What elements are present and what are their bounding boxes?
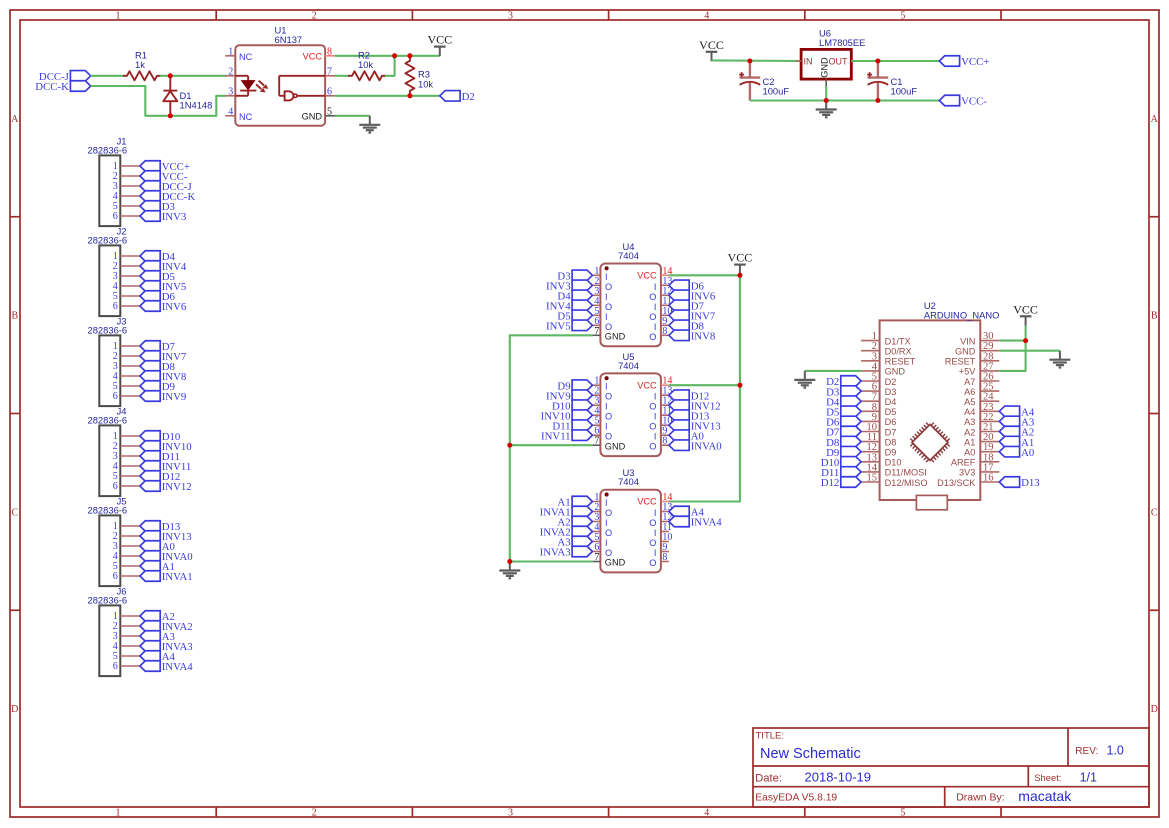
svg-text:6: 6: [113, 571, 118, 582]
U3 pin 2: [592, 502, 612, 518]
wire VCC rail to U2 pin 27 +5V: [999, 341, 1025, 371]
svg-text:INVA3: INVA3: [540, 547, 571, 559]
svg-text:I: I: [654, 548, 657, 558]
svg-text:282836-6: 282836-6: [88, 144, 128, 155]
U2 USB connector rectangle: [916, 495, 947, 509]
U1 pin 7: [325, 66, 335, 77]
svg-text:A3: A3: [964, 417, 975, 427]
svg-text:2: 2: [312, 808, 317, 819]
U6 pin IN: [796, 57, 813, 67]
net flag INV3 (J1 pin 6): [140, 211, 186, 223]
net flag A4 (J6 pin 5): [140, 651, 176, 663]
net flag INV13 (J5 pin 2): [140, 531, 192, 543]
svg-text:D2: D2: [462, 91, 475, 103]
svg-text:8: 8: [662, 326, 667, 337]
U3 pin 4: [592, 522, 612, 538]
net flag INV9 (U5 pin 2): [546, 390, 592, 402]
junction C1 bottom node: [875, 98, 880, 103]
svg-text:A2: A2: [964, 427, 975, 437]
svg-text:7404: 7404: [618, 476, 639, 487]
J6 pin 3: [113, 631, 140, 642]
U2 chip diamond glyph: [910, 423, 949, 462]
svg-text:8: 8: [327, 46, 332, 57]
U6 pin GND: [819, 57, 829, 87]
U3 pin 14 VCC: [637, 492, 672, 507]
capacitor C1 100uF: [867, 61, 917, 101]
J1 pin 1: [113, 161, 140, 172]
wire U6 GND down: [825, 86, 827, 101]
svg-text:I: I: [605, 538, 608, 548]
svg-text:282836-6: 282836-6: [88, 234, 128, 245]
ground (U6): [816, 101, 837, 118]
J3 pin 2: [113, 351, 140, 362]
U2 pin 29 GND: [955, 341, 999, 356]
J2 pin 4: [113, 281, 140, 292]
J2 pin 1: [113, 251, 140, 262]
U3 pin 3: [592, 512, 607, 528]
net flag D13 (U2 pin 16): [999, 477, 1039, 489]
net flag INVA2 (U3 pin 4): [540, 526, 593, 538]
net flag D12 (U2 pin 15): [821, 477, 861, 489]
U1 internal LED: [235, 76, 256, 96]
J4 pin 6: [113, 481, 140, 492]
J1 pin 6: [113, 211, 140, 222]
U3 pin 12: [649, 512, 672, 528]
wire U2 pin 30 VIN: [999, 340, 1025, 342]
svg-text:INVA0: INVA0: [691, 440, 722, 452]
svg-text:10k: 10k: [418, 79, 433, 90]
svg-text:NC: NC: [239, 112, 253, 122]
connector J6 282836-6 body: [88, 585, 128, 676]
J5 pin 2: [113, 531, 140, 542]
U4 pin 12: [649, 286, 672, 302]
svg-text:D7: D7: [885, 427, 897, 437]
net flag D9 (U5 pin 1): [557, 380, 592, 392]
wire VCC rail down to U3 pin 14: [669, 274, 740, 501]
svg-text:7404: 7404: [618, 250, 639, 261]
net flag A0 (U5 pin 9): [669, 430, 704, 442]
wire U1 pin 8 to VCC: [335, 55, 440, 57]
svg-text:O: O: [605, 392, 612, 402]
wire U1 pin 5 to ground: [335, 115, 370, 117]
net flag D8 (U2 pin 11): [826, 436, 861, 448]
net flag D13 (U5 pin 11): [669, 410, 709, 422]
svg-text:7: 7: [594, 552, 599, 563]
U3 pin 1: [592, 492, 607, 508]
U5 pin 8: [649, 436, 669, 452]
net flag INV4 (J2 pin 2): [140, 261, 187, 273]
net flag INV5 (J2 pin 4): [140, 281, 186, 293]
svg-text:6: 6: [113, 301, 118, 312]
U4 pin 11: [654, 296, 672, 312]
svg-text:2018-10-19: 2018-10-19: [805, 769, 872, 784]
J5 pin 5: [113, 561, 140, 572]
svg-text:VCC: VCC: [728, 251, 753, 265]
svg-text:AREF: AREF: [951, 458, 976, 468]
svg-text:I: I: [654, 322, 657, 332]
frame column ticks top: [216, 10, 1001, 20]
wire VCC to U6 IN: [712, 59, 802, 62]
svg-text:GND: GND: [605, 558, 626, 568]
wire U5 pin 7 to GND rail: [510, 444, 593, 446]
U2 pin 19 A0: [964, 442, 999, 457]
junction VCC rail / U5: [737, 383, 742, 388]
svg-text:D3: D3: [885, 387, 897, 397]
svg-text:A0: A0: [1021, 447, 1034, 459]
connector J4 282836-6 body: [88, 405, 128, 496]
wire DCC-K to U1 pin 3: [91, 86, 226, 116]
svg-text:IN: IN: [804, 57, 813, 67]
net flag INVA3 (J6 pin 4): [140, 641, 193, 653]
svg-text:OUT: OUT: [829, 57, 849, 67]
svg-text:I: I: [654, 508, 657, 518]
svg-text:5: 5: [900, 11, 905, 22]
U4 pin 6: [592, 316, 612, 332]
svg-text:GND: GND: [955, 347, 976, 357]
svg-text:INVA4: INVA4: [162, 661, 194, 673]
U4 pin 4: [592, 296, 612, 312]
svg-text:A5: A5: [964, 397, 975, 407]
wire U5 pin 14 to VCC rail: [669, 384, 740, 386]
net flag INV10 (J4 pin 2): [140, 441, 192, 453]
wire R1 to U1 pin 2: [160, 75, 226, 77]
net flag A3 (U2 pin 22): [999, 416, 1034, 428]
svg-text:1N4148: 1N4148: [180, 100, 213, 111]
svg-text:GND: GND: [605, 441, 626, 451]
svg-text:7: 7: [594, 326, 599, 337]
power flag VCC (U6 input): [699, 38, 724, 62]
junction R3 top node: [407, 53, 412, 58]
svg-text:B: B: [1151, 311, 1158, 322]
net flag D5 (U4 pin 5): [557, 310, 592, 322]
net flag INV8 (J3 pin 4): [140, 371, 186, 383]
MCU U2 ARDUINO_NANO body: [880, 320, 981, 500]
U4 pin 8: [649, 326, 669, 342]
svg-text:D5: D5: [885, 407, 897, 417]
svg-text:D9: D9: [885, 448, 897, 458]
U4 pin 5: [592, 306, 607, 322]
net flag D12 (J4 pin 5): [140, 471, 180, 483]
U2 pin 26 A7: [964, 372, 999, 387]
svg-text:16: 16: [983, 473, 994, 484]
U4 pin 2: [592, 276, 612, 292]
svg-text:D10: D10: [885, 458, 902, 468]
junction C2 top node: [747, 59, 752, 64]
svg-text:B: B: [11, 311, 18, 322]
svg-text:GND: GND: [885, 367, 906, 377]
net flag D6 (J2 pin 5): [140, 291, 176, 303]
ground (U2 pin 29): [1049, 351, 1070, 368]
svg-text:A1: A1: [964, 437, 975, 447]
net flag INV5 (U4 pin 6): [546, 320, 592, 332]
U2 pin 22 A3: [964, 412, 999, 427]
power flag VCC (U1): [427, 33, 452, 57]
svg-text:LM7805EE: LM7805EE: [819, 37, 865, 48]
title block outline: [753, 728, 1149, 807]
net flag INVA2 (J6 pin 2): [140, 621, 193, 633]
svg-text:282836-6: 282836-6: [88, 594, 128, 605]
net flag INV12 (J4 pin 6): [140, 481, 192, 493]
svg-text:VCC: VCC: [637, 271, 657, 281]
U2 pin 28 RESET: [945, 351, 1000, 366]
net flag DCC-J: [39, 71, 91, 83]
net flag VCC-: [939, 95, 987, 107]
U5 pin 9: [654, 426, 669, 442]
svg-text:I: I: [605, 272, 608, 282]
J4 pin 5: [113, 471, 140, 482]
net flag D5 (U2 pin 8): [826, 406, 861, 418]
U3 pin 8: [649, 552, 669, 568]
U2 pin 13 D10: [861, 452, 901, 467]
svg-text:6: 6: [113, 211, 118, 222]
U2 pin 14 D11/MOSI: [861, 462, 927, 477]
svg-text:A: A: [11, 114, 19, 125]
svg-text:NC: NC: [239, 52, 253, 62]
IC U4 7404 body: [600, 264, 661, 347]
junction R3 bottom node: [407, 93, 412, 98]
U4 pin 3: [592, 286, 607, 302]
J5 pin 6: [113, 571, 140, 582]
svg-text:15: 15: [867, 473, 878, 484]
svg-text:TITLE:: TITLE:: [756, 731, 785, 742]
svg-text:2: 2: [312, 11, 317, 22]
svg-text:O: O: [605, 302, 612, 312]
U1 pin 8 VCC: [303, 46, 335, 61]
svg-text:D6: D6: [885, 417, 897, 427]
svg-text:7404: 7404: [618, 360, 639, 371]
U1 pin 6: [325, 86, 335, 97]
net flag INV7 (J3 pin 2): [140, 351, 187, 363]
net flag INV13 (U5 pin 10): [669, 420, 721, 432]
svg-text:7: 7: [594, 436, 599, 447]
svg-text:O: O: [605, 432, 612, 442]
svg-text:I: I: [654, 302, 657, 312]
net flag D10 (U2 pin 13): [821, 457, 861, 469]
U3 pin 10: [649, 532, 672, 548]
net flag INVA4 (J6 pin 6): [140, 661, 193, 673]
svg-text:4: 4: [704, 11, 709, 22]
wire U1 pin 6 to D2: [335, 95, 441, 97]
net flag D11 (U5 pin 5): [552, 420, 592, 432]
net flag INVA4 (U3 pin 12): [669, 516, 722, 528]
net flag A4 (U2 pin 23): [999, 406, 1035, 418]
U2 pin 10 D7: [861, 422, 896, 437]
svg-text:New Schematic: New Schematic: [760, 746, 861, 762]
svg-text:6: 6: [113, 391, 118, 402]
svg-text:I: I: [605, 422, 608, 432]
wire U2 pin 4 GND to ground: [805, 370, 861, 372]
svg-text:Drawn By:: Drawn By:: [956, 791, 1004, 803]
U2 pin 30 VIN: [960, 331, 999, 346]
net flag INV8 (U4 pin 8): [669, 330, 715, 342]
U5 pin 2: [592, 386, 612, 402]
voltage regulator U6 LM7805EE body: [801, 49, 851, 79]
junction R2 top node: [392, 53, 397, 58]
U2 pin 2 D0/RX: [861, 341, 912, 356]
J6 pin 4: [113, 641, 140, 652]
svg-text:7: 7: [327, 66, 332, 77]
U2 pin 8 D5: [861, 402, 896, 417]
net flag D10 (U5 pin 3): [552, 400, 592, 412]
U5 pin 13: [654, 386, 673, 402]
frame row ticks left: [10, 217, 20, 611]
svg-text:I: I: [605, 518, 608, 528]
net flag INV7 (U4 pin 10): [669, 310, 716, 322]
U5 pin 7 GND: [592, 436, 625, 452]
net flag A2 (U2 pin 21): [999, 426, 1034, 438]
U5 pin 12: [649, 396, 672, 412]
U2 pin 1 D1/TX: [861, 331, 911, 346]
U3 pin 13: [654, 502, 673, 518]
frame column numbers top: [116, 11, 906, 22]
U1 pin 5 GND: [302, 106, 335, 121]
net flag D13 (J5 pin 1): [140, 521, 180, 533]
svg-text:Sheet:: Sheet:: [1034, 772, 1061, 783]
J3 pin 4: [113, 371, 140, 382]
svg-text:5: 5: [327, 106, 332, 117]
U5 pin 5: [592, 416, 607, 432]
U2 pin 18 AREF: [951, 452, 999, 467]
svg-text:GND: GND: [302, 111, 323, 121]
svg-text:O: O: [605, 412, 612, 422]
svg-text:O: O: [605, 508, 612, 518]
U5 pin 3: [592, 396, 607, 412]
U6 pin OUT: [829, 57, 857, 67]
wire U1 pin 7 to R2: [335, 75, 349, 77]
connector J3 282836-6 body: [88, 315, 128, 406]
net flag D2: [440, 91, 475, 103]
svg-text:100uF: 100uF: [891, 86, 918, 97]
svg-text:D2: D2: [885, 377, 897, 387]
J3 pin 1: [113, 341, 140, 352]
svg-text:6: 6: [327, 86, 332, 97]
wire DCC-J to R1: [91, 75, 124, 77]
U4 pin 13: [654, 276, 673, 292]
net flag A0 (J5 pin 3): [140, 541, 175, 553]
wire R2 to VCC net: [385, 57, 395, 76]
ground (U2 pin 4): [794, 371, 815, 388]
U2 pin 3 RESET: [861, 351, 916, 366]
U5 pin 1: [592, 376, 607, 392]
svg-text:Date:: Date:: [755, 772, 782, 784]
J2 pin 5: [113, 291, 140, 302]
svg-text:I: I: [605, 382, 608, 392]
svg-text:A0: A0: [964, 448, 975, 458]
svg-text:100uF: 100uF: [763, 86, 790, 97]
svg-text:INV8: INV8: [691, 331, 716, 343]
svg-text:I: I: [605, 402, 608, 412]
U2 pin 5 D2: [861, 372, 896, 387]
U3 pin 6: [592, 542, 612, 558]
net flag D7 (U4 pin 11): [669, 300, 705, 312]
net flag D7 (U2 pin 10): [826, 426, 861, 438]
net flag A3 (U3 pin 5): [557, 536, 592, 548]
U2 pin 4 GND: [861, 361, 905, 376]
svg-text:INVA1: INVA1: [162, 571, 193, 583]
U2 pin 21 A2: [964, 422, 999, 437]
net flag D8 (U4 pin 9): [669, 320, 704, 332]
J4 pin 4: [113, 461, 140, 472]
net flag DCC-K: [35, 81, 90, 93]
svg-text:6: 6: [113, 661, 118, 672]
svg-text:3: 3: [508, 11, 513, 22]
J1 pin 4: [113, 191, 140, 202]
net flag VCC+: [939, 56, 989, 68]
net flag A1 (U3 pin 1): [557, 496, 592, 508]
U2 pin 17 3V3: [959, 462, 999, 477]
svg-text:I: I: [654, 412, 657, 422]
svg-text:D12/MISO: D12/MISO: [885, 478, 928, 488]
U2 pin 12 D9: [861, 442, 896, 457]
net flag D10 (J4 pin 1): [140, 431, 180, 443]
U1 LED light arrows: [256, 81, 268, 93]
net flag INVA0 (U5 pin 8): [669, 440, 722, 452]
net flag D4 (U2 pin 7): [826, 396, 861, 408]
power flag VCC (7404 rail): [728, 251, 753, 275]
svg-text:O: O: [605, 528, 612, 538]
net flag INVA3 (U3 pin 6): [540, 546, 593, 558]
diode D1 1N4148: [163, 76, 212, 116]
svg-text:3: 3: [508, 808, 513, 819]
J1 pin 5: [113, 201, 140, 212]
U3 pin 5: [592, 532, 607, 548]
svg-text:1/1: 1/1: [1080, 770, 1097, 784]
resistor R2 10k: [348, 50, 386, 81]
svg-text:3V3: 3V3: [959, 468, 975, 478]
net flag D6 (U4 pin 13): [669, 280, 705, 292]
svg-text:A6: A6: [964, 387, 975, 397]
svg-text:VCC: VCC: [637, 497, 657, 507]
svg-text:1: 1: [116, 808, 121, 819]
J2 pin 6: [113, 301, 140, 312]
U4 pin 14 VCC: [637, 266, 672, 281]
svg-text:O: O: [605, 548, 612, 558]
net flag A0 (U2 pin 19): [999, 446, 1034, 458]
U5 pin 11: [654, 406, 672, 422]
J6 pin 6: [113, 661, 140, 672]
U2 pin 20 A1: [964, 432, 999, 447]
svg-text:3: 3: [228, 86, 233, 97]
svg-text:8: 8: [662, 436, 667, 447]
U5 pin 10: [649, 416, 672, 432]
svg-text:INV12: INV12: [162, 481, 192, 493]
svg-text:6N137: 6N137: [275, 34, 303, 45]
svg-text:VCC: VCC: [1013, 302, 1038, 316]
connector J1 282836-6 body: [88, 135, 128, 226]
svg-text:6: 6: [113, 481, 118, 492]
net flag A3 (J6 pin 3): [140, 631, 175, 643]
svg-text:I: I: [654, 282, 657, 292]
frame row letters right: [1151, 114, 1159, 715]
U4 pin 1 marker dot: [605, 266, 609, 270]
net flag D6 (U2 pin 9): [826, 416, 861, 428]
U2 pin 9 D6: [861, 412, 896, 427]
net flag D12 (U5 pin 13): [669, 390, 709, 402]
svg-text:D13: D13: [1021, 477, 1040, 489]
svg-text:EasyEDA V5.8.19: EasyEDA V5.8.19: [755, 792, 837, 803]
svg-text:A: A: [1151, 114, 1159, 125]
net flag INVA0 (J5 pin 4): [140, 551, 193, 563]
J1 pin 3: [113, 181, 140, 192]
svg-text:1k: 1k: [135, 59, 145, 70]
J6 pin 2: [113, 621, 140, 632]
svg-text:1: 1: [116, 11, 121, 22]
U3 pin 1 marker dot: [605, 492, 609, 496]
junction VIN node: [1023, 338, 1028, 343]
svg-text:5: 5: [900, 808, 905, 819]
ground (U1 pin 5): [359, 116, 380, 133]
svg-text:O: O: [649, 518, 656, 528]
